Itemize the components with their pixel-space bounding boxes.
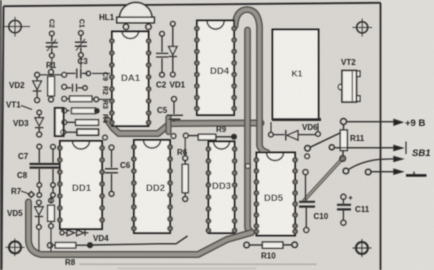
- wire C2 to R1: [51, 58, 53, 70]
- resistor R8: [47, 243, 92, 249]
- row3 output and ground: [365, 169, 402, 175]
- capacitor C4 (small horizontal cap): [67, 84, 87, 92]
- svg-text:C2: C2: [156, 81, 167, 90]
- svg-text:VD4: VD4: [93, 234, 109, 243]
- switch lever SB1 row1: [305, 133, 406, 155]
- resistor R3 (horizontal): [67, 108, 99, 114]
- wire C1 down to C3: [80, 58, 82, 69]
- LED HL1: [117, 2, 155, 29]
- svg-text:R9: R9: [216, 125, 227, 134]
- transistor VT2: [338, 71, 360, 103]
- svg-text:HL1: HL1: [99, 13, 115, 22]
- resistor R4 (horizontal): [67, 120, 99, 126]
- svg-text:C9: C9: [101, 72, 108, 81]
- IC DD5: [254, 153, 297, 236]
- svg-text:R8: R8: [65, 258, 76, 267]
- resistor R6: [182, 138, 188, 201]
- node pad between DD1 and DD2 tops: [103, 135, 108, 140]
- wire trace: C5 to left stub under DA1: [108, 120, 262, 134]
- svg-text:C10: C10: [314, 212, 329, 221]
- resistor R10: [244, 242, 298, 248]
- resistor R2 (horizontal): [67, 96, 110, 102]
- traces layer: [29, 10, 343, 269]
- capacitor C6: [105, 145, 118, 196]
- svg-text:VD2: VD2: [9, 81, 25, 90]
- wire trace: vertical between DD3 and DD5: [248, 30, 252, 233]
- svg-text:C5: C5: [157, 106, 168, 115]
- wire trace: big bottom-left snake: [29, 202, 252, 255]
- svg-text:VT2: VT2: [341, 58, 356, 67]
- IC DD2: [132, 140, 172, 233]
- svg-text:DD1: DD1: [72, 183, 92, 194]
- capacitor C2 (mid, by DA1): [156, 31, 168, 77]
- svg-text:VD5: VD5: [7, 209, 23, 218]
- svg-text:DD3: DD3: [212, 181, 231, 192]
- wire trace: riser to C5: [165, 118, 171, 133]
- wire trace: C10 to R11 diagonal: [304, 159, 343, 201]
- resistor R5 (horizontal): [66, 129, 99, 135]
- diode VD4: [60, 230, 89, 236]
- svg-text:DD4: DD4: [210, 66, 230, 77]
- diode VD3: [35, 110, 43, 137]
- switch lever row2: [343, 157, 402, 174]
- svg-text:VT1: VT1: [6, 101, 21, 110]
- svg-text:+9 В: +9 В: [405, 118, 425, 129]
- wire VD2 to pad: [40, 74, 62, 76]
- wire trace: arc over DD4 down right side: [235, 10, 267, 153]
- mounting hole top-right: [353, 19, 373, 37]
- svg-text:R6: R6: [177, 148, 188, 157]
- node pads under DA1: [171, 133, 188, 138]
- svg-text:C8: C8: [17, 171, 28, 180]
- svg-text:C7: C7: [18, 152, 29, 161]
- svg-text:C1: C1: [78, 19, 85, 28]
- capacitor C2 (top-left, rotated label): [46, 31, 58, 58]
- svg-text:DA1: DA1: [121, 73, 141, 84]
- svg-text:R7: R7: [11, 187, 22, 196]
- capacitor C3 (rotated label, horizontal cap): [67, 69, 110, 79]
- node pad near DD5 right: [305, 154, 310, 159]
- resistor R7 body: [48, 197, 55, 252]
- svg-text:R10: R10: [261, 252, 276, 261]
- power +9V node and arrow: [341, 119, 403, 126]
- capacitor C7 / C8 pair: [30, 144, 62, 197]
- resistor R1: [48, 70, 55, 103]
- capacitor C5: [167, 97, 183, 123]
- mounting hole bottom-right: [353, 239, 372, 257]
- wire R8 to DD3: [93, 236, 188, 245]
- svg-text:C11: C11: [355, 205, 370, 214]
- IC DD3: [206, 142, 236, 234]
- svg-text:R2: R2: [101, 86, 108, 95]
- svg-text:VD3: VD3: [13, 119, 29, 128]
- svg-text:C6: C6: [120, 161, 131, 170]
- transistor VT1: [21, 106, 64, 137]
- diode VD2: [33, 72, 42, 102]
- IC DD1: [58, 141, 104, 229]
- resistor R11: [340, 125, 347, 162]
- svg-text:VD6: VD6: [302, 123, 318, 132]
- svg-text:R11: R11: [350, 134, 365, 143]
- svg-text:DD5: DD5: [264, 193, 284, 204]
- wire trace: faint bottom continuation: [80, 263, 316, 265]
- diode VD1: [169, 21, 177, 77]
- mounting hole bottom-left: [6, 239, 25, 257]
- IC DD4: [195, 21, 236, 116]
- ground symbol: [406, 172, 427, 176]
- svg-text:R3: R3: [101, 100, 108, 109]
- node pad on trace left of DD5: [245, 164, 250, 169]
- svg-text:VD1: VD1: [170, 81, 186, 90]
- svg-text:C3: C3: [78, 57, 89, 66]
- svg-text:C2: C2: [48, 19, 55, 28]
- svg-text:K1: K1: [292, 69, 303, 79]
- capacitor C10: [299, 170, 315, 233]
- diode VD6: [269, 122, 321, 141]
- resistor R9: [188, 134, 236, 140]
- diode VD5: [35, 200, 43, 251]
- svg-text:R4: R4: [101, 114, 108, 123]
- op-amp DA1: [110, 32, 151, 127]
- node pads column left of DA1: [61, 72, 67, 134]
- svg-text:SB1: SB1: [412, 148, 430, 159]
- mounting hole top-left: [4, 17, 31, 37]
- capacitor C11: [337, 194, 352, 225]
- relay K1: [272, 30, 321, 120]
- capacitor C1 (top, rotated label): [75, 31, 87, 58]
- resistor R7 with pointer: [21, 191, 34, 197]
- svg-text:DD2: DD2: [146, 183, 165, 194]
